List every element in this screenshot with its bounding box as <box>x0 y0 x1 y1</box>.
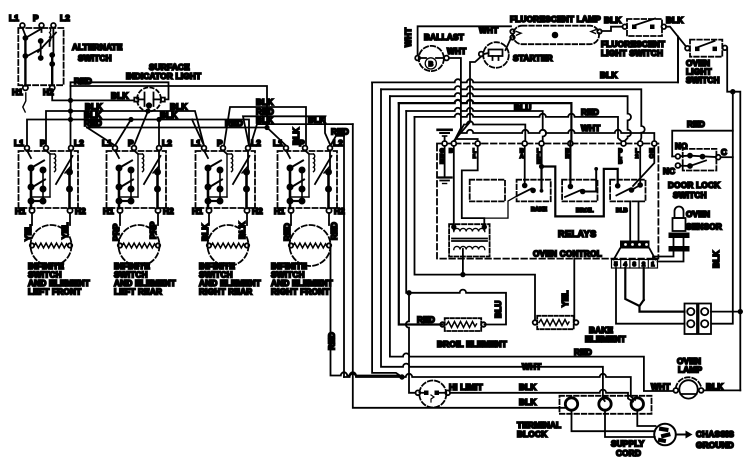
svg-text:BALLAST: BALLAST <box>424 33 464 42</box>
svg-text:WHT: WHT <box>522 363 541 372</box>
svg-text:RED: RED <box>328 332 337 350</box>
svg-text:DLB: DLB <box>616 208 628 214</box>
wire bundle row 4 BLU to BR <box>399 100 572 325</box>
svg-text:YEL: YEL <box>561 290 570 307</box>
svg-text:BAKE: BAKE <box>531 207 547 213</box>
svg-text:RED: RED <box>74 77 92 86</box>
wire hi limit feed x=409 <box>406 291 416 393</box>
switch 3 labels <box>191 139 263 297</box>
svg-text:RED: RED <box>331 128 349 137</box>
svg-text:WHT: WHT <box>479 26 498 35</box>
oven sensor <box>669 207 690 252</box>
wire rail x=352.8 to terminal block <box>353 124 566 408</box>
infinite switch right rear <box>196 146 256 266</box>
bake relay <box>484 146 550 218</box>
wire bundle row 7 to BA <box>455 121 526 141</box>
svg-text:H2: H2 <box>75 207 86 216</box>
svg-text:H1: H1 <box>15 207 26 216</box>
svg-text:SWITCH: SWITCH <box>673 191 707 200</box>
wire rail RED x=344 to lower bus <box>343 136 345 377</box>
wire L1B down with junction <box>539 146 544 193</box>
svg-text:C: C <box>721 148 727 157</box>
svg-text:BLOCK: BLOCK <box>517 430 547 439</box>
control terminals <box>442 141 657 146</box>
wire posts to supply cord plug <box>572 410 656 437</box>
alternate switch internal contacts <box>22 28 56 86</box>
svg-text:BLU: BLU <box>494 300 503 318</box>
connector plug <box>612 241 658 269</box>
svg-text:N: N <box>440 160 444 166</box>
fluorescent light switch <box>623 19 667 37</box>
wire oven light switch right down the right edge <box>727 48 740 391</box>
broil relay <box>562 141 598 201</box>
wire bundle row 8 WHT to NO <box>454 130 654 142</box>
wire B to transformer <box>453 146 455 226</box>
svg-text:BROIL: BROIL <box>576 208 594 214</box>
oven control box <box>437 144 658 259</box>
wire BLK bus y=111 <box>46 109 204 145</box>
svg-text:P: P <box>217 139 223 148</box>
svg-text:H1: H1 <box>274 207 285 216</box>
svg-text:WHT: WHT <box>447 47 466 56</box>
wire pins 4+2 merged to block <box>625 268 684 312</box>
wire RED bus y=116.3 to switch 4 L2 <box>243 116 331 145</box>
wire BLK to indicator from alt switch H2 <box>52 91 134 103</box>
wire BLK bus y=107 to switch 4 P <box>224 107 306 146</box>
svg-text:NO: NO <box>675 142 688 151</box>
dlb relay <box>610 146 654 201</box>
wire bundle row 2 to L2 <box>381 86 645 401</box>
svg-text:OVEN CONTROL: OVEN CONTROL <box>533 250 602 259</box>
svg-text:L1: L1 <box>14 139 24 148</box>
wire YEL from control to bake element <box>573 259 575 320</box>
wire block to right rail <box>711 310 742 314</box>
wire diagonals at switch 2 P <box>115 109 159 145</box>
svg-text:L1: L1 <box>102 139 112 148</box>
svg-text:ALTERNATE: ALTERNATE <box>72 43 123 52</box>
wire stub below alternate switch H1 <box>23 93 26 112</box>
svg-text:BLK: BLK <box>256 116 274 125</box>
svg-text:SWITCH: SWITCH <box>686 76 720 85</box>
svg-text:CHASSIS: CHASSIS <box>696 430 734 439</box>
wire bake element left to control <box>462 249 464 275</box>
svg-text:OVEN: OVEN <box>686 210 710 219</box>
svg-text:SURFACE: SURFACE <box>149 63 190 72</box>
svg-text:NC: NC <box>663 167 675 176</box>
oven lamp <box>673 377 703 398</box>
wire hi limit right BLK to terminal block <box>450 390 633 402</box>
wire bundle row 1 BLK <box>372 38 678 378</box>
svg-text:ELEMENT: ELEMENT <box>585 335 626 344</box>
wire from switch 4 element down to lower junction <box>331 249 403 378</box>
wire door lock feed loop <box>672 92 733 324</box>
svg-text:PRP: PRP <box>112 223 121 241</box>
bake element <box>533 316 579 329</box>
wire RED bus y=127.5 <box>87 126 286 146</box>
svg-text:2: 2 <box>635 154 638 160</box>
wire starter right up to lamp pin <box>506 38 512 50</box>
svg-text:BLK: BLK <box>160 111 178 120</box>
infinite switch left front <box>19 146 79 266</box>
svg-text:L2: L2 <box>74 139 84 148</box>
wire starter left down to control <box>454 56 481 141</box>
wire bundle row 9 to L1 <box>454 139 478 141</box>
svg-text:PRP: PRP <box>149 221 158 239</box>
wire loop from indicator right terminal over the top <box>71 82 169 99</box>
svg-text:RED: RED <box>417 316 435 325</box>
wire RED bus y=86 <box>71 86 268 146</box>
svg-text:FLUORESCENT LAMP: FLUORESCENT LAMP <box>510 15 601 24</box>
svg-text:L1: L1 <box>273 139 283 148</box>
svg-text:L2: L2 <box>162 139 172 148</box>
svg-text:H1: H1 <box>192 207 203 216</box>
svg-text:BLK: BLK <box>111 92 129 101</box>
svg-text:SWITCH: SWITCH <box>78 54 112 63</box>
svg-text:H2: H2 <box>163 207 174 216</box>
svg-text:RED: RED <box>225 119 243 128</box>
svg-text:FLUORESCENT: FLUORESCENT <box>601 40 665 49</box>
svg-text:BLK: BLK <box>666 16 684 25</box>
svg-text:CORD: CORD <box>616 449 641 458</box>
svg-text:BLK: BLK <box>201 223 210 241</box>
svg-text:RELAYS: RELAYS <box>558 229 597 239</box>
svg-text:SUPPLY: SUPPLY <box>611 440 645 449</box>
wire lower bus y=377 to terminal block post 3 <box>344 374 635 400</box>
wire sensor to connector pins <box>653 252 684 262</box>
switch 1 labels <box>14 139 90 297</box>
alternate switch box <box>18 23 63 90</box>
svg-text:BLK: BLK <box>519 398 537 407</box>
wire fluorescent switch right to oven light switch <box>666 27 686 83</box>
svg-text:P: P <box>128 139 134 148</box>
svg-text:1: 1 <box>651 262 654 268</box>
svg-text:YEL: YEL <box>24 224 33 241</box>
svg-text:DOOR LOCK: DOOR LOCK <box>668 181 720 190</box>
supply cord plug <box>654 424 676 446</box>
svg-text:H2: H2 <box>252 207 263 216</box>
svg-text:TERMINAL: TERMINAL <box>517 421 561 430</box>
svg-text:A: A <box>520 154 524 160</box>
svg-text:P: P <box>299 139 305 148</box>
svg-text:RED: RED <box>84 119 102 128</box>
svg-text:B: B <box>429 61 434 68</box>
svg-text:B: B <box>618 160 622 166</box>
svg-text:RIGHT REAR: RIGHT REAR <box>199 288 252 297</box>
svg-text:L1: L1 <box>9 14 19 23</box>
svg-text:BLK: BLK <box>238 221 247 239</box>
wire bundle row 6 RED to DLB and bake element <box>415 114 622 320</box>
svg-text:LEFT FRONT: LEFT FRONT <box>28 288 81 297</box>
svg-text:HI LIMIT: HI LIMIT <box>449 383 483 392</box>
svg-text:RED: RED <box>581 108 599 117</box>
surface indicator light lamp <box>134 87 165 111</box>
svg-text:WHT: WHT <box>404 28 413 47</box>
wire RED bus y=135.8 to rail <box>331 136 345 146</box>
ballast <box>415 46 449 71</box>
svg-text:YEL: YEL <box>61 222 70 239</box>
svg-text:P: P <box>40 139 46 148</box>
wire bundle row 3 to DLB <box>390 93 674 391</box>
wire lamp right to fluorescent light switch <box>602 27 623 31</box>
fluorescent lamp <box>510 26 601 45</box>
chassis ground arrow <box>677 431 693 439</box>
svg-text:1: 1 <box>473 154 476 160</box>
svg-text:GROUND: GROUND <box>696 441 734 450</box>
svg-text:RED: RED <box>574 348 592 357</box>
wire BLK bus y=124.1 to rail <box>251 124 353 145</box>
svg-text:LIGHT SWITCH: LIGHT SWITCH <box>601 49 663 58</box>
svg-text:H1: H1 <box>12 88 23 97</box>
wire bundle row 5 to L1B and BLU broil right <box>406 108 546 325</box>
starter <box>479 42 509 68</box>
svg-text:L2: L2 <box>251 139 261 148</box>
svg-text:INDICATOR LIGHT: INDICATOR LIGHT <box>126 72 201 81</box>
svg-text:STARTER: STARTER <box>513 54 553 63</box>
svg-text:BLK: BLK <box>256 98 274 107</box>
wire U path from L1B junction to DLB relay <box>542 167 618 217</box>
wire relays to connector <box>630 201 638 240</box>
oven light switch <box>685 40 727 57</box>
svg-text:LEFT REAR: LEFT REAR <box>114 288 162 297</box>
svg-text:RED: RED <box>687 120 705 129</box>
svg-text:BROIL ELEMENT: BROIL ELEMENT <box>437 340 507 349</box>
svg-text:BLK: BLK <box>604 16 622 25</box>
door lock switch <box>672 149 733 171</box>
terminal labels <box>440 149 655 166</box>
broil element <box>440 318 486 331</box>
svg-text:L2: L2 <box>60 14 70 23</box>
svg-text:LAMP: LAMP <box>678 366 702 375</box>
svg-text:RED: RED <box>330 222 339 240</box>
switch 4 labels <box>271 139 345 297</box>
wire diagonal at switch 3 L1 <box>192 120 204 146</box>
ground symbol above GRN <box>438 130 452 141</box>
svg-text:R: R <box>565 154 569 160</box>
svg-text:BLK: BLK <box>600 71 618 80</box>
svg-text:BLK: BLK <box>519 383 537 392</box>
wire pin 5 to block <box>616 268 685 324</box>
wire BLK bus y=119.5 <box>27 118 249 146</box>
wire L1 jog to transformer <box>462 146 485 226</box>
wire ballast right down to control <box>449 58 461 141</box>
svg-text:BLK: BLK <box>308 116 326 125</box>
svg-text:3: 3 <box>633 262 636 268</box>
svg-text:BAKE: BAKE <box>589 326 613 335</box>
relay 1 (empty) <box>470 180 505 202</box>
svg-text:B: B <box>449 149 453 155</box>
infinite switch right front <box>278 146 338 266</box>
svg-text:BLK: BLK <box>712 250 721 268</box>
switch 2 labels <box>102 139 176 297</box>
hi limit <box>416 381 451 408</box>
svg-text:L2: L2 <box>333 139 343 148</box>
wire ballast left up and over to lamp <box>418 26 511 55</box>
svg-text:WHT: WHT <box>651 383 670 392</box>
terminal block <box>560 396 652 414</box>
svg-text:L1: L1 <box>191 139 201 148</box>
svg-text:H1: H1 <box>103 207 114 216</box>
connector blocks with eyelets <box>685 304 712 335</box>
ground symbol inside control <box>438 146 452 184</box>
svg-text:RIGHT FRONT: RIGHT FRONT <box>271 288 330 297</box>
svg-text:RED: RED <box>283 223 292 241</box>
wire oven lamp right to rail <box>704 389 741 391</box>
svg-text:SENSOR: SENSOR <box>686 223 722 232</box>
svg-text:WHT: WHT <box>581 124 600 133</box>
infinite switch left rear <box>107 146 167 266</box>
transformer <box>449 224 490 256</box>
svg-text:P: P <box>33 14 39 23</box>
